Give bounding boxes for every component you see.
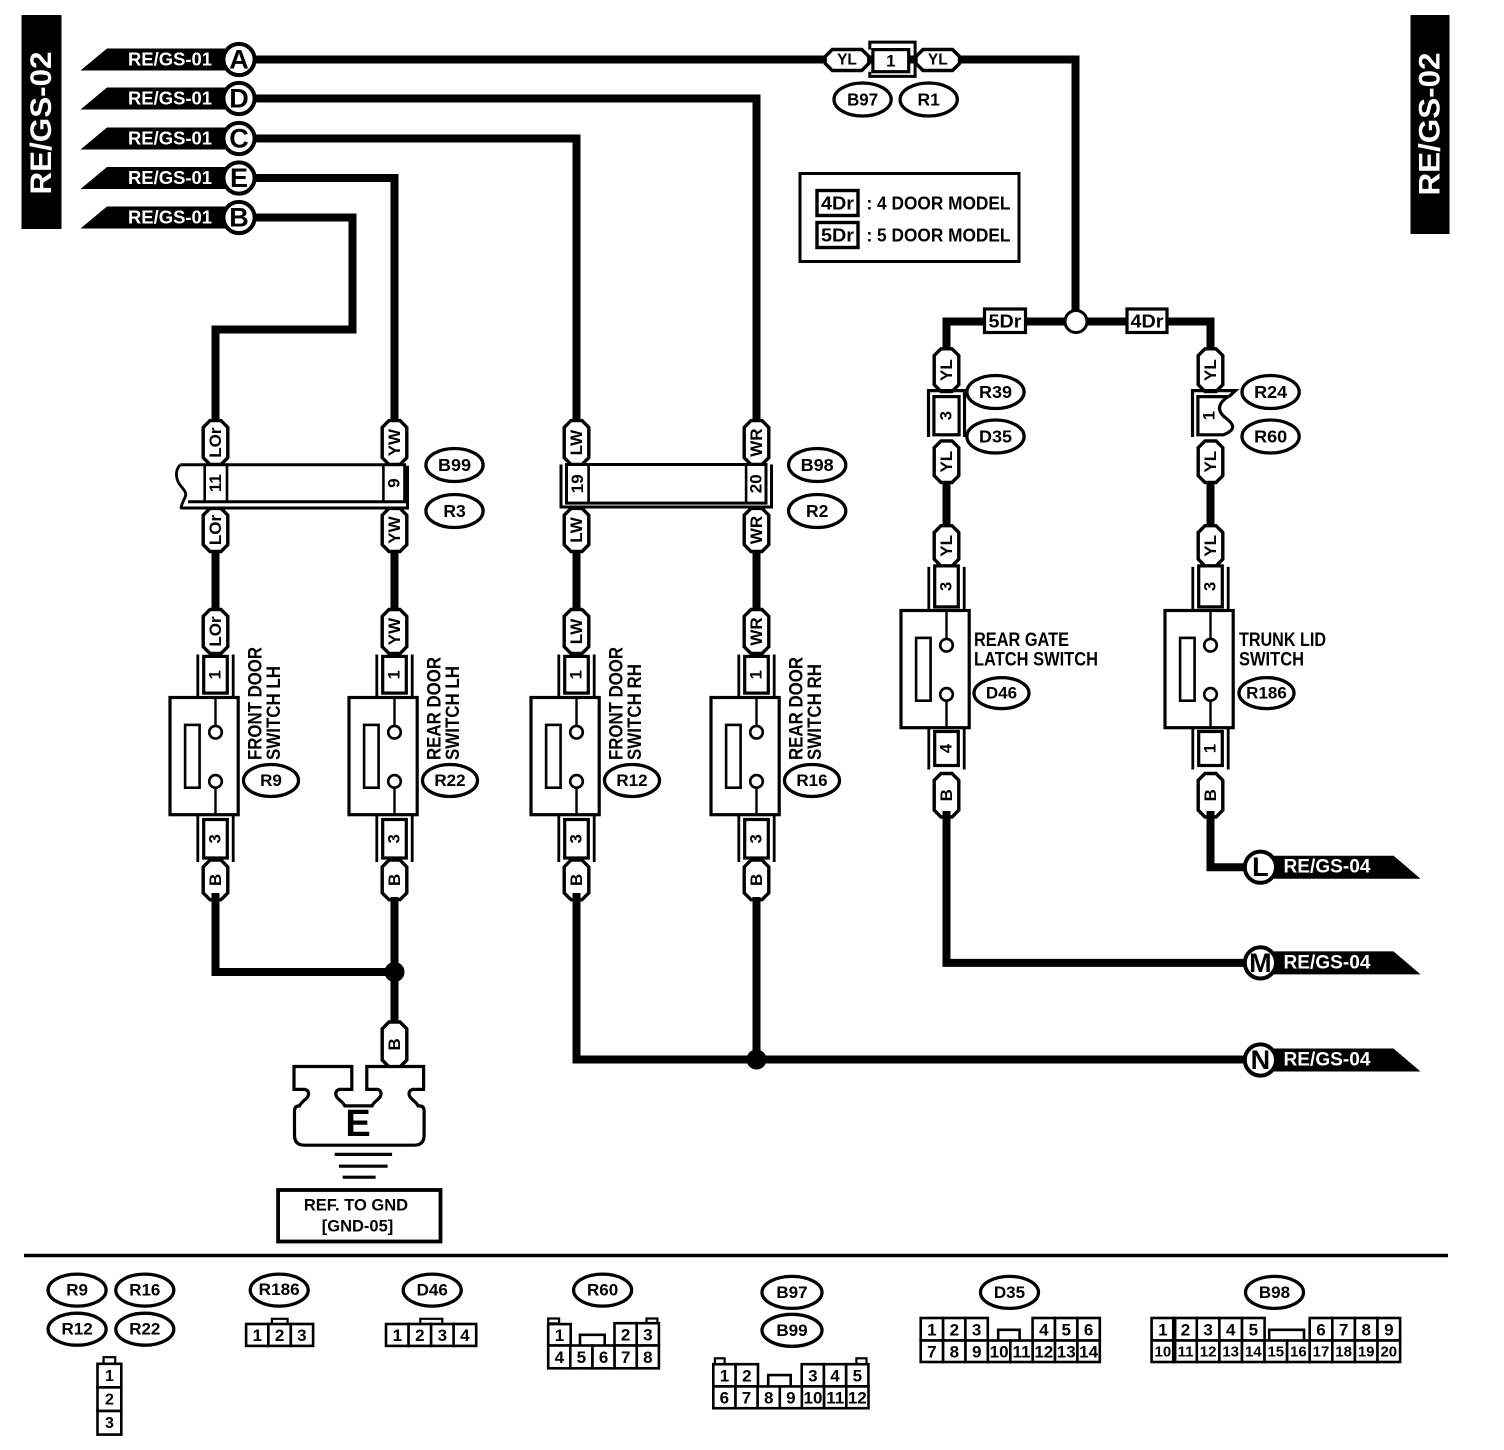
svg-text:SWITCH LH: SWITCH LH (442, 666, 464, 760)
svg-text:D46: D46 (986, 684, 1017, 703)
svg-text:YW: YW (385, 515, 404, 543)
inline connector R39/D35 pin 3 (929, 391, 965, 437)
svg-text:10: 10 (1155, 1343, 1172, 1360)
connector ref oval R12 (48, 1313, 106, 1345)
svg-text:C: C (229, 124, 249, 154)
wire D from RE/GS-01 D to connector B98 pin 20 (256, 99, 757, 424)
svg-text:2: 2 (950, 1320, 959, 1339)
svg-text:2: 2 (275, 1326, 284, 1345)
wire segment WR above switch R16 (753, 553, 761, 612)
connector ref B98 (789, 449, 846, 482)
svg-text:RE/GS-04: RE/GS-04 (1284, 1050, 1371, 1071)
wire A from RE/GS-01 A to junction (256, 60, 1076, 312)
svg-text:1: 1 (886, 51, 895, 70)
connector ref oval R186 (250, 1274, 308, 1306)
svg-text:10: 10 (804, 1388, 823, 1407)
svg-text:R60: R60 (1254, 427, 1287, 447)
svg-text:D: D (229, 84, 249, 114)
svg-text:6: 6 (1084, 1320, 1093, 1339)
svg-text:YL: YL (1201, 535, 1220, 557)
svg-text:SWITCH LH: SWITCH LH (263, 666, 285, 760)
pin 3 of switch D46 (927, 567, 930, 610)
pin 1 of switch R12 (557, 655, 560, 698)
svg-text:11: 11 (1178, 1343, 1194, 1360)
pin 1 of switch R16 (737, 655, 740, 698)
svg-text:R3: R3 (443, 501, 466, 521)
wire label YL below D46 connector (934, 441, 959, 483)
svg-text:WR: WR (747, 617, 766, 645)
svg-text:WR: WR (747, 428, 766, 456)
connector view R186 pins 1-3 (272, 1319, 288, 1324)
svg-text:1: 1 (105, 1368, 114, 1385)
svg-text:3: 3 (438, 1326, 447, 1345)
wire label WR below bar (744, 508, 769, 551)
svg-text:3: 3 (1203, 1320, 1212, 1339)
svg-text:R9: R9 (66, 1281, 88, 1300)
connector ref R3 (426, 495, 483, 528)
svg-text:B: B (385, 874, 404, 886)
pin 1 of switch R186 (1191, 729, 1194, 770)
svg-text:LOr: LOr (206, 616, 225, 647)
connector bar B99/R3 with pins 11 and 9 (181, 466, 408, 508)
svg-text:5: 5 (853, 1366, 862, 1385)
svg-text:1: 1 (927, 1320, 936, 1339)
svg-text:B99: B99 (438, 455, 471, 475)
switch ref oval D46 (974, 678, 1029, 709)
svg-text:2: 2 (415, 1326, 424, 1345)
svg-text:4: 4 (938, 743, 956, 753)
connector ref oval R16 (116, 1274, 174, 1306)
svg-text:1: 1 (568, 670, 586, 679)
svg-text:7: 7 (1339, 1320, 1348, 1339)
connector ref oval D35 (981, 1276, 1039, 1308)
switch body R12 (531, 698, 599, 815)
svg-text:9: 9 (1384, 1320, 1393, 1339)
switch body R9 (170, 698, 238, 815)
svg-text:R24: R24 (1254, 382, 1287, 402)
connector flag RE/GS-01 E (81, 167, 231, 189)
connector bar B98/R2 with pins 19 and 20 (561, 465, 772, 508)
svg-text:R186: R186 (1246, 684, 1287, 703)
inline connector R24/R60 pin 1 with torn edge (1193, 391, 1236, 437)
switch ref oval R9 (244, 765, 299, 797)
connector ref oval R60 (574, 1274, 632, 1306)
wire B from RE/GS-01 B to connector B99 pin 11 (216, 218, 353, 424)
wire from R9 pin B to ground junction (216, 897, 395, 972)
pin 1 of switch R22 (375, 655, 378, 698)
svg-text:18: 18 (1335, 1343, 1352, 1360)
wire label B below switch R22 (382, 860, 407, 900)
svg-text:: 5 DOOR MODEL: : 5 DOOR MODEL (867, 226, 1011, 246)
svg-text:3: 3 (1202, 582, 1220, 591)
svg-text:9: 9 (385, 478, 404, 487)
svg-text:4: 4 (555, 1348, 565, 1367)
svg-text:12: 12 (1200, 1343, 1217, 1360)
svg-text:13: 13 (1057, 1342, 1076, 1361)
connector flag RE/GS-01 D (81, 88, 231, 110)
svg-text:20: 20 (1380, 1343, 1397, 1360)
svg-text:17: 17 (1313, 1343, 1330, 1360)
wire label WR above switch R16 (744, 610, 769, 654)
svg-text:R16: R16 (129, 1281, 160, 1300)
junction dot on N wire (747, 1050, 767, 1070)
wire segment LOr above switch R9 (212, 553, 220, 612)
svg-text:B97: B97 (847, 90, 878, 110)
left page banner RE/GS-02 (22, 15, 62, 229)
svg-text:A: A (229, 45, 249, 75)
connector ref R1 (900, 83, 957, 116)
svg-text:4: 4 (830, 1366, 840, 1385)
wire label YW above bar (382, 421, 407, 465)
svg-text:YL: YL (1201, 359, 1220, 381)
svg-text:15: 15 (1267, 1343, 1284, 1360)
svg-text:D35: D35 (979, 427, 1012, 447)
wire from D46 pin B to RE/GS-04 M (947, 815, 1246, 963)
svg-text:R186: R186 (259, 1281, 300, 1299)
svg-text:19: 19 (1358, 1343, 1375, 1360)
svg-text:8: 8 (643, 1348, 652, 1367)
pin 4 of switch D46 (927, 729, 930, 770)
svg-text:: 4 DOOR MODEL: : 4 DOOR MODEL (867, 194, 1011, 214)
wire C from RE/GS-01 C to connector B98 pin 19 (256, 139, 577, 424)
wire label YL above switch D46 (934, 526, 959, 566)
svg-text:RE/GS-01: RE/GS-01 (128, 168, 212, 188)
svg-text:8: 8 (764, 1388, 773, 1407)
svg-text:5: 5 (577, 1348, 586, 1367)
connector ref B97 (834, 83, 891, 116)
connector flag RE/GS-01 B (81, 207, 231, 229)
svg-text:R22: R22 (129, 1320, 160, 1339)
svg-text:B98: B98 (801, 455, 834, 475)
pin 3 of switch R22 (375, 815, 378, 862)
svg-text:9: 9 (972, 1342, 981, 1361)
svg-text:11: 11 (826, 1388, 844, 1407)
wire label YW above switch R22 (382, 610, 407, 654)
svg-text:11: 11 (1013, 1342, 1031, 1361)
svg-text:3: 3 (938, 411, 956, 420)
connector ref B99 (426, 449, 483, 482)
svg-text:B: B (937, 789, 956, 801)
svg-text:SWITCH: SWITCH (1239, 649, 1304, 671)
svg-text:LW: LW (567, 516, 586, 542)
svg-text:R1: R1 (918, 90, 941, 110)
wire label YW below bar (382, 508, 407, 551)
svg-text:YL: YL (1201, 451, 1220, 473)
svg-text:YW: YW (385, 428, 404, 456)
svg-text:1: 1 (1158, 1320, 1167, 1339)
svg-text:REF. TO GND: REF. TO GND (304, 1197, 408, 1215)
svg-text:LOr: LOr (206, 427, 225, 458)
svg-text:10: 10 (990, 1342, 1009, 1361)
svg-text:1: 1 (748, 670, 766, 679)
svg-text:RE/GS-02: RE/GS-02 (1414, 53, 1447, 196)
svg-text:YL: YL (937, 359, 956, 381)
svg-text:3: 3 (386, 834, 404, 843)
connector flag RE/GS-04 M (1268, 951, 1421, 974)
connector ref D35 (967, 420, 1024, 453)
svg-text:5Dr: 5Dr (989, 311, 1022, 331)
svg-text:1: 1 (386, 670, 404, 679)
svg-text:R12: R12 (616, 771, 647, 790)
svg-text:11: 11 (206, 474, 225, 492)
svg-text:B98: B98 (1259, 1283, 1290, 1302)
svg-text:RE/GS-04: RE/GS-04 (1284, 952, 1371, 973)
svg-text:8: 8 (1361, 1320, 1370, 1339)
svg-text:SWITCH RH: SWITCH RH (804, 664, 826, 760)
svg-text:4Dr: 4Dr (821, 194, 854, 214)
svg-text:2: 2 (742, 1366, 751, 1385)
connector ref oval D46 (403, 1274, 461, 1306)
svg-text:4: 4 (1039, 1320, 1049, 1339)
svg-text:3: 3 (972, 1320, 981, 1339)
separator line above connector views (24, 1254, 1448, 1257)
svg-text:RE/GS-01: RE/GS-01 (128, 50, 212, 70)
svg-text:SWITCH RH: SWITCH RH (624, 664, 646, 760)
svg-text:5: 5 (1249, 1320, 1258, 1339)
svg-text:YL: YL (937, 535, 956, 557)
svg-text:6: 6 (599, 1348, 608, 1367)
wire from R12 pin B to RE/GS-04 N (577, 897, 1246, 1060)
inline connector B97/R1 pin 1 with YL wire labels (870, 42, 915, 76)
svg-text:1: 1 (207, 670, 225, 679)
svg-text:13: 13 (1222, 1343, 1239, 1360)
svg-text:LATCH SWITCH: LATCH SWITCH (974, 649, 1098, 671)
connector flag RE/GS-01 A (81, 49, 231, 71)
svg-text:RE/GS-01: RE/GS-01 (128, 208, 212, 228)
switch ref oval R22 (423, 765, 478, 797)
wire from R186 pin B to RE/GS-04 L (1211, 815, 1246, 867)
switch body R186 (1165, 611, 1233, 728)
svg-text:N: N (1251, 1045, 1271, 1075)
wire label YL above R186 connector (1198, 349, 1223, 392)
svg-text:4: 4 (460, 1326, 470, 1345)
connector ref oval B98 (1246, 1276, 1304, 1308)
svg-text:3: 3 (748, 834, 766, 843)
svg-text:3: 3 (207, 834, 225, 843)
wire label LOr above bar (203, 421, 228, 465)
svg-text:1: 1 (555, 1326, 564, 1345)
connector ref R60 (1242, 420, 1299, 453)
wire from R22 pin B to ground (391, 897, 399, 1024)
svg-text:B: B (229, 203, 249, 233)
svg-text:12: 12 (1034, 1342, 1053, 1361)
connector ref oval B97 (762, 1276, 822, 1308)
pin 1 of switch R9 (196, 655, 199, 698)
legend box 4Dr 5Dr door models (800, 174, 1019, 262)
connector flag RE/GS-04 N (1268, 1049, 1421, 1072)
connector ref R2 (789, 495, 846, 528)
pin 3 of switch R186 (1191, 567, 1194, 610)
svg-text:B: B (385, 1038, 404, 1050)
svg-text:B97: B97 (776, 1283, 807, 1302)
svg-text:L: L (1252, 852, 1269, 882)
svg-text:19: 19 (568, 474, 587, 493)
wire label WR above bar (744, 421, 769, 465)
svg-text:3: 3 (297, 1326, 306, 1345)
svg-text:YW: YW (385, 617, 404, 645)
svg-text:7: 7 (927, 1342, 936, 1361)
connector view D35 pins 1-14 (921, 1318, 943, 1341)
svg-text:6: 6 (720, 1388, 729, 1407)
ground hatching (335, 1153, 392, 1156)
svg-text:4Dr: 4Dr (1131, 311, 1164, 331)
svg-text:16: 16 (1290, 1343, 1307, 1360)
switch ref oval R12 (605, 765, 660, 797)
svg-text:R39: R39 (979, 382, 1012, 402)
connector ref R39 (967, 376, 1024, 409)
connector view R9/R16/R12/R22 pins 1-3 (104, 1357, 116, 1364)
svg-text:RE/GS-01: RE/GS-01 (128, 89, 212, 109)
svg-text:1: 1 (720, 1366, 729, 1385)
connector ref oval R22 (116, 1313, 174, 1345)
svg-text:E: E (230, 163, 248, 193)
ground terminal E (294, 1067, 424, 1146)
right page banner RE/GS-02 (1411, 15, 1450, 234)
wire segment LW above switch R12 (573, 553, 581, 612)
switch body R16 (711, 698, 779, 815)
svg-text:3: 3 (938, 582, 956, 591)
svg-text:12: 12 (848, 1388, 867, 1407)
wire label B below switch R12 (564, 860, 589, 900)
tag 5Dr (985, 309, 1026, 333)
switch body R22 (349, 698, 417, 815)
svg-text:R2: R2 (806, 501, 829, 521)
svg-text:5Dr: 5Dr (821, 226, 854, 246)
wire label B below switch R9 (203, 860, 228, 900)
svg-text:D46: D46 (417, 1281, 448, 1300)
connector view D46 pins 1-4 (420, 1319, 442, 1324)
svg-text:R22: R22 (434, 771, 465, 790)
wire label LOr below bar (203, 508, 228, 551)
wire segment above D46 (943, 482, 951, 528)
wire E from RE/GS-01 E to connector B99 pin 9 (256, 178, 395, 423)
svg-text:[GND-05]: [GND-05] (322, 1218, 394, 1236)
svg-text:B: B (206, 874, 225, 886)
wire label LW above bar (564, 421, 589, 465)
tag 4Dr (1127, 309, 1167, 333)
svg-text:M: M (1249, 948, 1272, 978)
connector flag RE/GS-01 C (81, 128, 231, 150)
svg-text:3: 3 (808, 1366, 817, 1385)
reference box REF. TO GND [GND-05] (278, 1190, 440, 1242)
connector view R60 pins 1-8 (548, 1319, 559, 1324)
wire from R16 pin B joining N wire (753, 897, 761, 1060)
svg-text:R9: R9 (260, 771, 282, 790)
connector flag RE/GS-04 L (1268, 856, 1421, 879)
pin 3 of switch R9 (196, 815, 199, 862)
svg-text:6: 6 (1316, 1320, 1325, 1339)
svg-text:YL: YL (937, 451, 956, 473)
svg-text:YL: YL (837, 52, 857, 69)
pin 3 of switch R16 (737, 815, 740, 862)
switch ref oval R16 (785, 765, 840, 797)
svg-text:4: 4 (1226, 1320, 1236, 1339)
svg-text:14: 14 (1245, 1343, 1262, 1360)
wire label B below switch R16 (744, 860, 769, 900)
wire label YL above D46 connector (934, 349, 959, 392)
svg-text:2: 2 (105, 1391, 114, 1408)
svg-text:WR: WR (747, 516, 766, 544)
wire label YL below R186 connector (1198, 441, 1223, 483)
svg-text:B: B (567, 874, 586, 886)
svg-text:1: 1 (1202, 744, 1220, 753)
svg-text:8: 8 (950, 1342, 959, 1361)
wire label YL above switch R186 (1198, 526, 1223, 566)
svg-text:RE/GS-02: RE/GS-02 (25, 52, 58, 195)
svg-text:7: 7 (742, 1388, 751, 1407)
svg-text:E: E (345, 1103, 370, 1145)
svg-text:3: 3 (105, 1415, 114, 1432)
svg-text:RE/GS-01: RE/GS-01 (128, 129, 212, 149)
svg-text:LW: LW (567, 618, 586, 644)
svg-text:YL: YL (928, 52, 948, 69)
svg-text:R60: R60 (587, 1281, 618, 1300)
connector view B97/B99 pins 1-12 (715, 1358, 725, 1364)
wire segment YW above switch R22 (391, 553, 399, 612)
wire label LW below bar (564, 508, 589, 551)
svg-text:B99: B99 (776, 1321, 807, 1340)
wire segment above R186 (1207, 482, 1215, 528)
svg-text:R12: R12 (62, 1320, 93, 1339)
wire label B below switch D46 (934, 774, 959, 818)
svg-text:7: 7 (621, 1348, 630, 1367)
svg-text:B: B (1201, 789, 1220, 801)
pin 3 of switch R12 (557, 815, 560, 862)
wire label LOr above switch R9 (203, 610, 228, 654)
wire label B below switch R186 (1198, 774, 1223, 818)
svg-text:14: 14 (1079, 1342, 1098, 1361)
connector ref oval B99 (762, 1314, 822, 1346)
svg-text:20: 20 (747, 474, 766, 493)
wire branch 4Dr to trunk lid switch (1087, 322, 1211, 352)
svg-text:5: 5 (1061, 1320, 1070, 1339)
svg-text:1: 1 (1201, 411, 1219, 420)
svg-text:B: B (747, 874, 766, 886)
svg-text:9: 9 (786, 1388, 795, 1407)
svg-text:3: 3 (568, 834, 586, 843)
svg-text:LW: LW (567, 429, 586, 455)
connector view B98 pins 1-20 (1152, 1318, 1175, 1341)
svg-text:D35: D35 (994, 1283, 1025, 1302)
svg-text:1: 1 (253, 1326, 262, 1345)
svg-text:2: 2 (1181, 1320, 1190, 1339)
switch ref oval R186 (1239, 678, 1294, 709)
svg-text:1: 1 (393, 1326, 402, 1345)
wire branch 5Dr to rear gate latch switch (947, 322, 1066, 352)
connector ref oval R9 (48, 1274, 106, 1306)
switch body D46 (901, 611, 969, 728)
svg-text:LOr: LOr (206, 515, 225, 546)
svg-text:2: 2 (621, 1325, 630, 1344)
connector ref R24 (1242, 376, 1299, 409)
ground junction dot (385, 962, 405, 982)
svg-text:RE/GS-04: RE/GS-04 (1284, 857, 1371, 878)
wire label LW above switch R12 (564, 610, 589, 654)
svg-text:R16: R16 (796, 771, 827, 790)
junction node branch circle (1065, 311, 1087, 333)
wire label B above ground (382, 1022, 407, 1067)
svg-text:3: 3 (643, 1325, 652, 1344)
